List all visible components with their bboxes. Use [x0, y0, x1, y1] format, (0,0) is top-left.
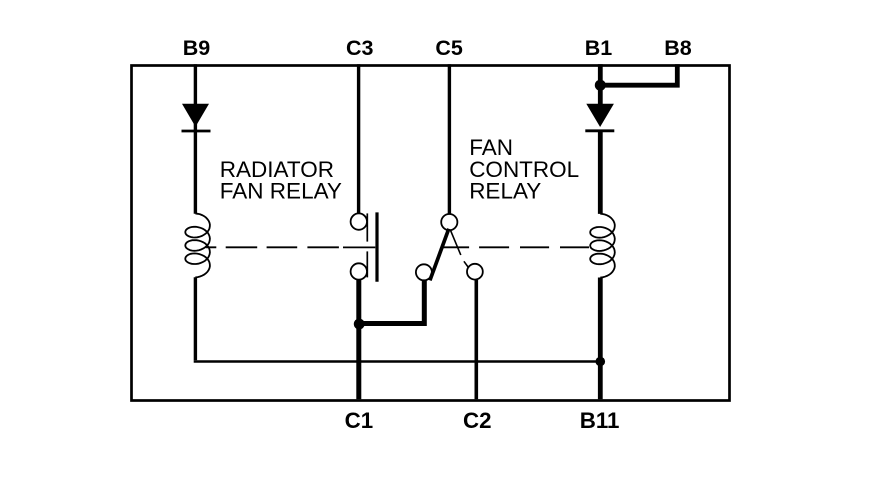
svg-text:B11: B11 — [580, 408, 620, 433]
contact terminal C1 — [351, 263, 367, 279]
svg-text:C3: C3 — [346, 36, 374, 60]
SPDT throw terminal C2 — [467, 264, 483, 280]
actuating dashed line left — [206, 246, 339, 248]
wire C3 vertical — [357, 64, 360, 213]
contact terminal C3 — [351, 213, 367, 229]
actuating dashed line right — [442, 246, 589, 248]
junction node C1 — [354, 319, 365, 330]
SPDT common terminal C5 — [441, 214, 457, 230]
coil L2 fan control relay — [590, 214, 615, 278]
wire C2 vertical — [474, 280, 478, 399]
diode D1 (radiator fan relay clamp) — [182, 104, 209, 127]
fixed contact bar — [375, 212, 378, 281]
ground bus wire to B11 — [194, 360, 601, 363]
svg-text:B9: B9 — [183, 36, 211, 60]
wire diode to coil thick — [598, 131, 603, 214]
wire B8 to B1 bridge — [598, 64, 677, 85]
SPDT movable arm thick — [430, 229, 449, 281]
SPDT alternate throw thin — [450, 230, 461, 255]
svg-text:C1: C1 — [345, 408, 374, 433]
svg-text:C2: C2 — [463, 408, 492, 433]
armature link — [343, 246, 375, 248]
wire C1 vertical thick — [356, 280, 361, 400]
svg-text:C5: C5 — [435, 36, 463, 60]
svg-text:B1: B1 — [585, 36, 613, 60]
junction node B11 — [596, 357, 606, 367]
connector box outline — [132, 66, 730, 401]
wire C5 vertical — [448, 64, 451, 214]
junction node B1 — [595, 80, 606, 91]
wire B9 vertical — [194, 64, 197, 214]
svg-text:RELAY: RELAY — [469, 178, 541, 203]
relay contact blade (radiator fan relay) — [366, 213, 368, 241]
wire B11 vertical thick — [598, 278, 603, 400]
wire coil to ground bus — [194, 277, 197, 360]
SPDT throw terminal (to C1) — [416, 264, 432, 280]
svg-text:B8: B8 — [664, 36, 692, 60]
svg-text:FAN RELAY: FAN RELAY — [220, 178, 342, 203]
wire B1 vertical thick — [598, 64, 603, 104]
coil L1 radiator fan relay — [185, 214, 210, 278]
thick wire SPDT lower-left contact to C1 — [359, 280, 424, 324]
diode D2 (fan control relay clamp) — [586, 104, 614, 127]
